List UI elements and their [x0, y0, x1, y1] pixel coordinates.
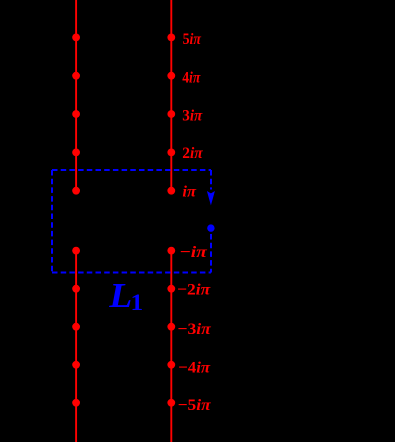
contour rectangle L1: bottom edge	[52, 272, 211, 274]
wire: right red line upper segment	[170, 0, 172, 191]
svg-text:2iπ: 2iπ	[182, 145, 204, 162]
arrowhead on right edge (downward)	[207, 191, 215, 205]
contour rectangle L1: right edge lower dashes	[210, 234, 212, 273]
svg-text:4iπ: 4iπ	[182, 70, 201, 87]
wire: left red line lower segment	[75, 251, 77, 442]
contour rectangle L1: left edge	[51, 170, 53, 273]
node: blue point on right edge	[207, 224, 214, 231]
svg-text:−5iπ: −5iπ	[178, 397, 212, 414]
wire: right red line lower segment	[170, 251, 172, 442]
svg-text:3iπ: 3iπ	[182, 108, 203, 125]
svg-text:−4iπ: −4iπ	[178, 359, 211, 376]
svg-text:−2iπ: −2iπ	[177, 282, 212, 299]
node: right line dots	[167, 34, 175, 407]
svg-text:−iπ: −iπ	[180, 244, 209, 261]
svg-text:5iπ: 5iπ	[183, 31, 202, 48]
svg-text:L: L	[108, 276, 132, 315]
node: left line dots	[72, 34, 80, 407]
svg-text:iπ: iπ	[182, 184, 197, 201]
svg-text:1: 1	[131, 290, 144, 316]
wire: left red line upper segment	[75, 0, 77, 191]
svg-text:−3iπ: −3iπ	[177, 321, 212, 338]
contour rectangle L1: top edge	[52, 169, 211, 171]
contour rectangle L1: right edge upper dashes	[210, 170, 212, 190]
